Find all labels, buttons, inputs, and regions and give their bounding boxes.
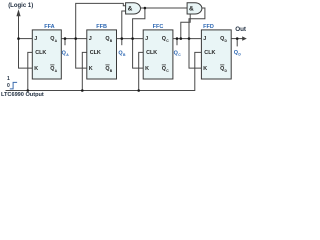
and-gate U2 [187,3,202,14]
junction dot rail FFA [27,89,30,92]
svg-text:K: K [145,66,149,72]
logic 1 supply arrow [16,9,32,68]
node QB stub [121,39,123,46]
node QB label [118,51,126,58]
junction dot QA branches [74,37,77,40]
clock rail wire [6,52,202,90]
wire QC to J FFD [173,38,202,40]
junction dot rail FFB [81,89,84,92]
svg-text:J: J [89,36,92,42]
node QD stub [236,39,238,47]
flip-flop FFA [32,24,61,79]
wire U2 output drop to J FFD [189,8,205,39]
svg-text:Out: Out [235,26,247,33]
wire clock riser FFC [139,52,144,90]
node QD label [234,50,242,57]
and-gate U1 [126,3,141,14]
arrowhead Out [242,36,247,40]
svg-text:LTC6990 Output: LTC6990 Output [1,92,44,98]
wire U2 branch to K FFD [189,39,201,69]
svg-text:A: A [66,53,69,57]
junction dot J FFD [188,37,191,40]
svg-text:&: & [189,5,194,12]
junction dot rail FFC [137,89,140,92]
wire QC riser to gate U2 input [181,14,190,39]
svg-text:K: K [203,66,207,72]
wire QA top rail to gate U1 [76,3,126,38]
svg-text:FFD: FFD [203,24,214,30]
junction dot QC stub [176,37,179,40]
wire U1 output drop to J FFC [133,8,145,39]
svg-text:FFB: FFB [96,24,107,30]
junction dot QA stub [64,37,67,40]
svg-text:J: J [34,36,37,42]
clock pulse glyph [10,82,17,89]
svg-text:(Logic 1): (Logic 1) [8,3,33,9]
wire QA to J FFB [61,38,87,40]
node QC stub [176,39,178,46]
junction node on logic-1 line [17,37,20,40]
flip-flop FFD [201,24,231,79]
junction dot QB [121,37,124,40]
junction dot J FFC [131,37,134,40]
svg-text:D: D [238,52,241,56]
svg-text:K: K [89,66,93,72]
node QA label [62,51,70,58]
node QC label [174,51,182,58]
node QA stub [64,39,66,46]
junction dot QC riser [180,37,183,40]
svg-text:1: 1 [7,76,10,82]
wire U1 output rail to gate U2 [140,7,187,9]
wire QB riser to gate U1 input [122,11,126,39]
svg-text:0: 0 [7,83,10,89]
junction dot QD [236,37,239,40]
svg-text:&: & [128,5,133,12]
junction dot U1 output [144,7,147,10]
svg-text:B: B [123,53,126,57]
svg-text:K: K [34,66,38,72]
wire J input FFA [19,38,33,40]
wire QD output [231,38,243,40]
flip-flop FFC [143,24,173,79]
svg-text:J: J [203,36,206,42]
svg-text:CLK: CLK [35,50,46,56]
svg-text:CLK: CLK [204,50,215,56]
wire QA branch to K FFB [76,39,87,69]
wire U1 branch to K FFC [133,39,144,69]
svg-text:CLK: CLK [90,50,101,56]
wire clock riser FFA [28,52,33,90]
svg-text:CLK: CLK [146,50,157,56]
wire QB to J FFC [117,38,144,40]
svg-text:FFC: FFC [153,24,164,30]
svg-text:C: C [178,53,181,57]
svg-text:FFA: FFA [44,24,54,30]
wire clock riser FFB [82,52,87,90]
flip-flop FFB [87,24,117,79]
svg-text:J: J [145,36,148,42]
